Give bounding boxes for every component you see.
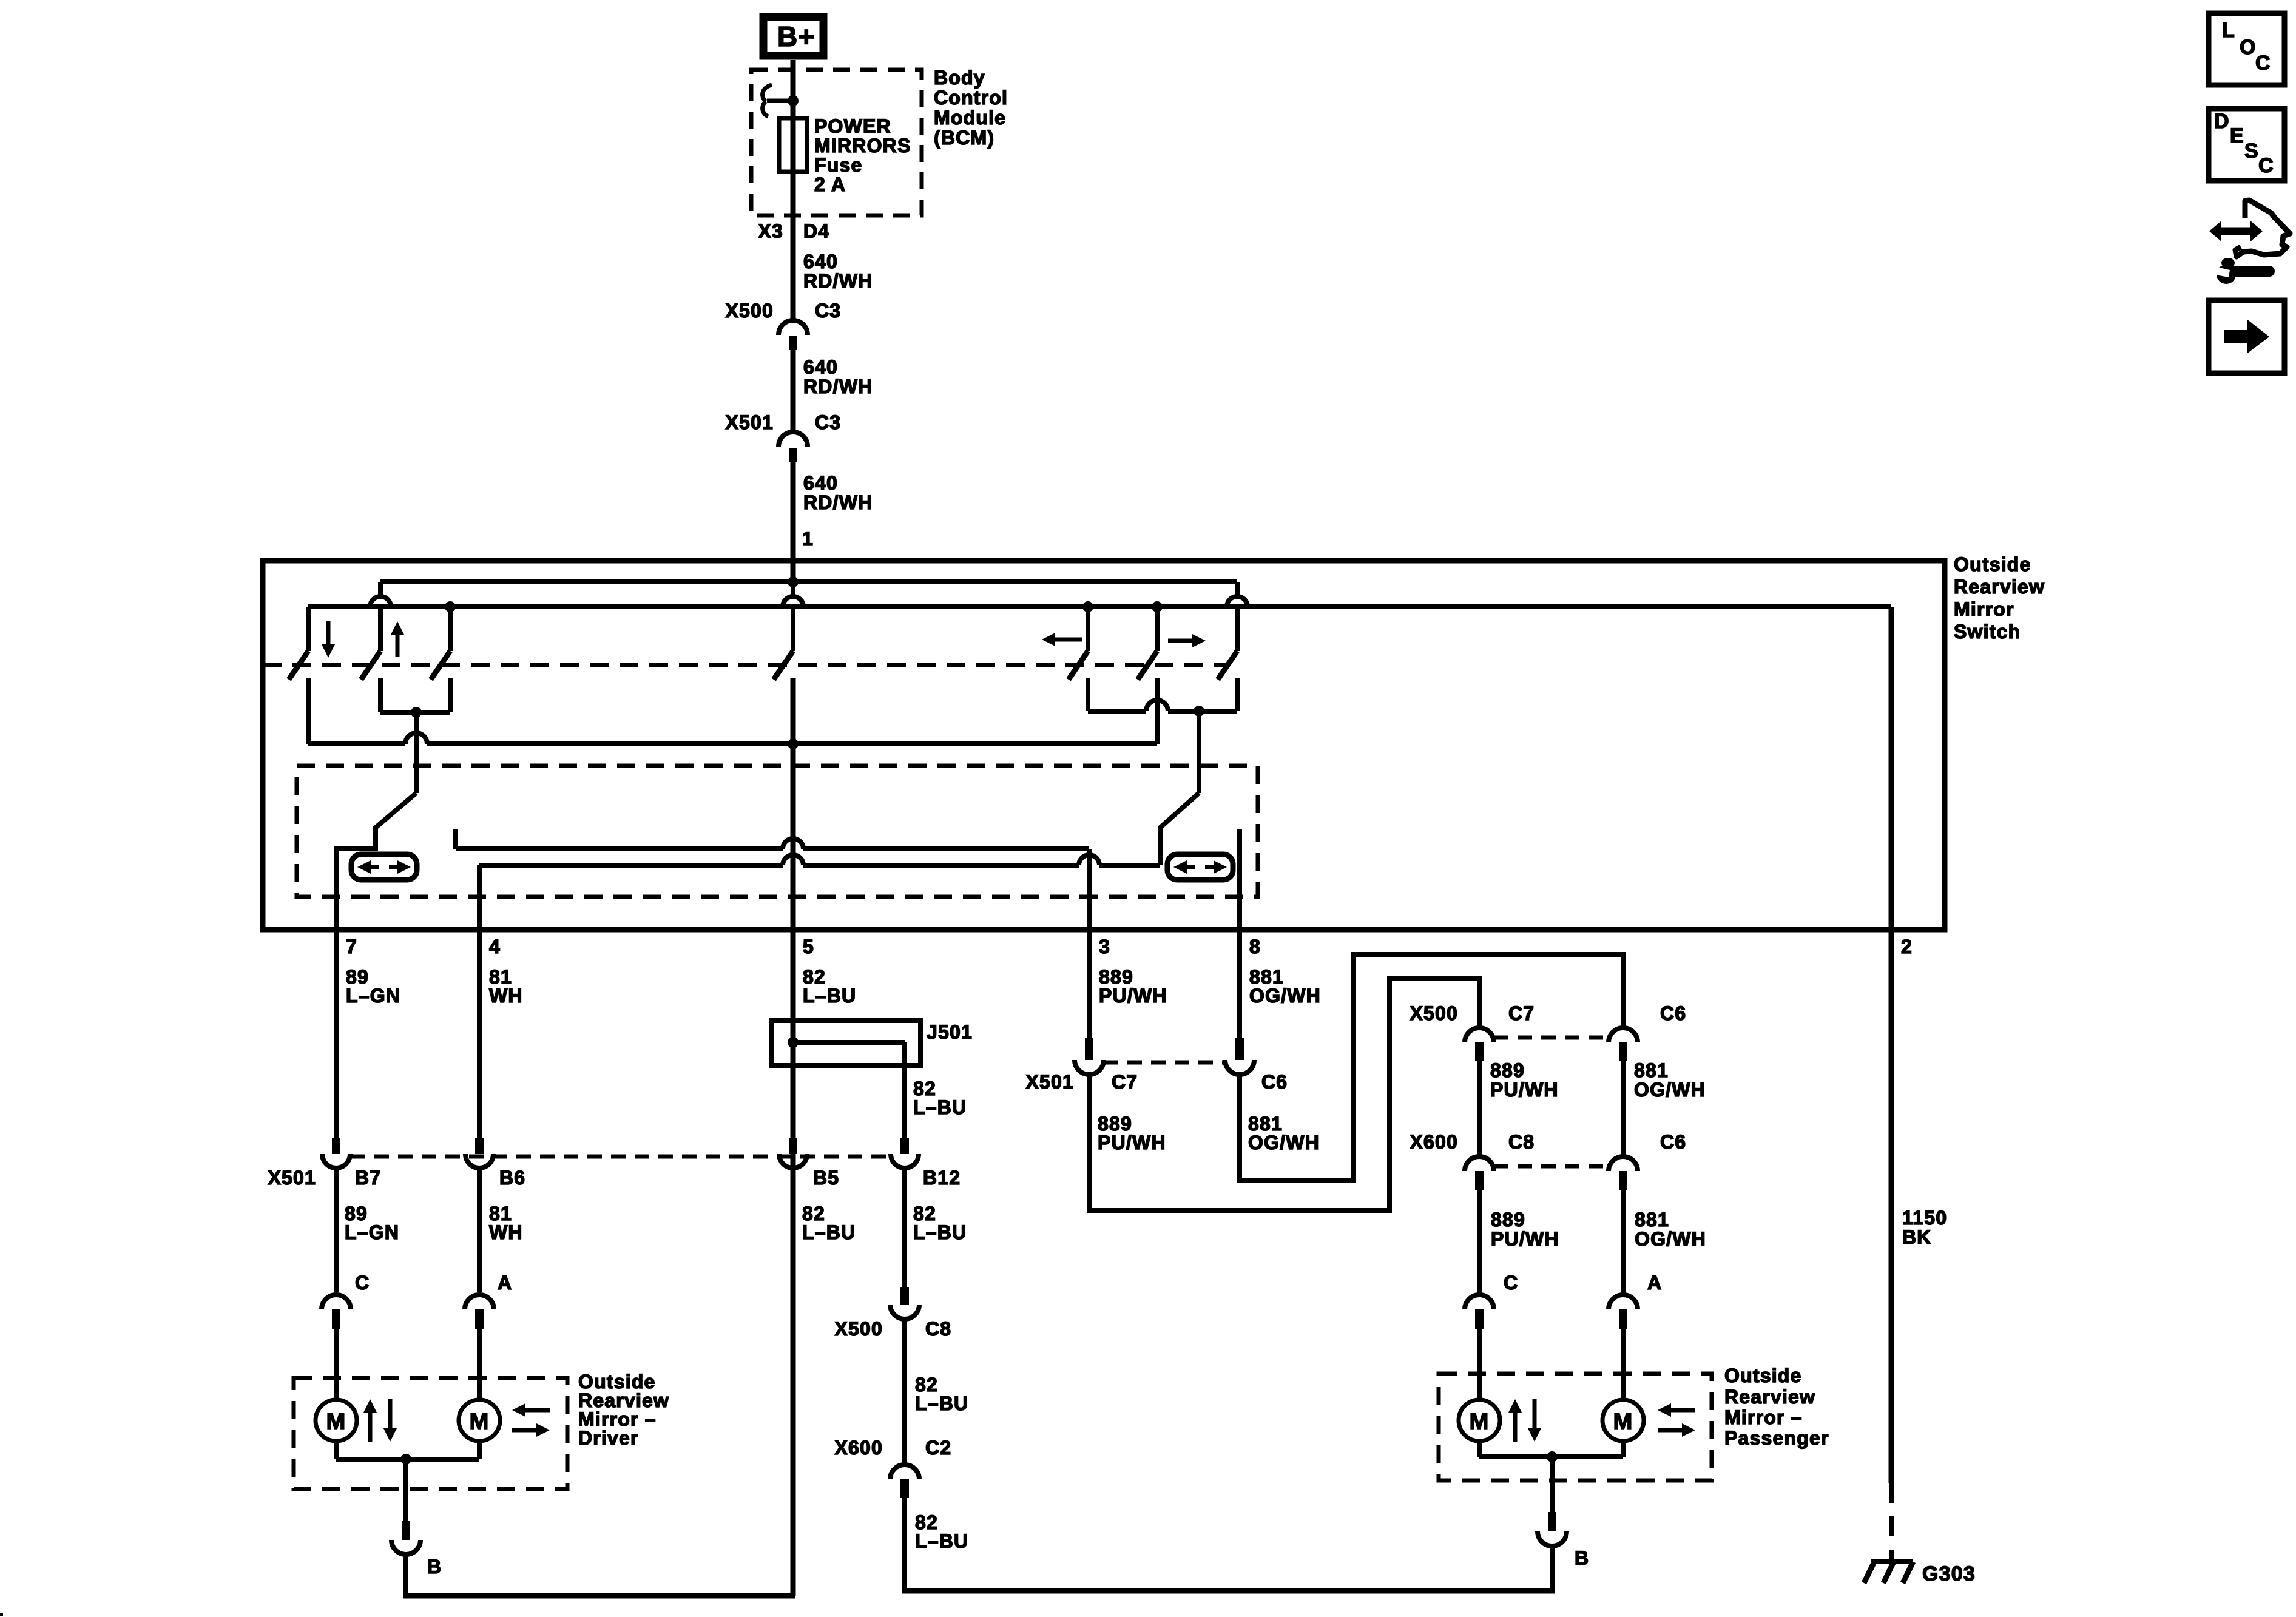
- svg-text:C: C: [355, 1272, 370, 1294]
- svg-text:C6: C6: [1261, 1071, 1288, 1093]
- svg-text:Passenger: Passenger: [1724, 1427, 1829, 1449]
- svg-text:7: 7: [346, 936, 357, 957]
- svg-text:PU/WH: PU/WH: [1099, 985, 1167, 1007]
- svg-text:X600: X600: [834, 1437, 883, 1459]
- svg-text:Body: Body: [934, 67, 985, 89]
- svg-text:C3: C3: [815, 411, 841, 433]
- svg-text:X3: X3: [758, 220, 783, 242]
- svg-text:B: B: [1575, 1547, 1589, 1569]
- svg-text:C8: C8: [925, 1318, 951, 1340]
- svg-text:M: M: [1613, 1409, 1633, 1434]
- svg-text:PU/WH: PU/WH: [1491, 1228, 1559, 1250]
- svg-text:PU/WH: PU/WH: [1098, 1132, 1166, 1153]
- svg-text:B6: B6: [499, 1167, 525, 1189]
- svg-text:C6: C6: [1660, 1002, 1686, 1024]
- svg-text:1: 1: [802, 528, 814, 550]
- svg-text:OG/WH: OG/WH: [1635, 1228, 1706, 1250]
- svg-text:Fuse: Fuse: [814, 154, 863, 176]
- svg-text:Mirror –: Mirror –: [1724, 1406, 1803, 1428]
- svg-text:B12: B12: [923, 1167, 961, 1189]
- svg-text:X600: X600: [1410, 1131, 1458, 1153]
- svg-text:C6: C6: [1660, 1131, 1686, 1153]
- svg-text:RD/WH: RD/WH: [803, 491, 873, 513]
- svg-text:X501: X501: [268, 1167, 316, 1189]
- svg-text:J501: J501: [927, 1021, 973, 1043]
- svg-text:L–BU: L–BU: [802, 1221, 856, 1243]
- svg-text:640: 640: [803, 472, 838, 494]
- svg-text:8: 8: [1249, 936, 1261, 957]
- svg-text:3: 3: [1099, 936, 1110, 957]
- svg-text:L–GN: L–GN: [346, 985, 400, 1007]
- svg-text:L–GN: L–GN: [345, 1221, 399, 1243]
- svg-text:D4: D4: [803, 220, 829, 242]
- svg-text:A: A: [498, 1272, 512, 1294]
- svg-text:B: B: [427, 1556, 442, 1578]
- svg-text:L–BU: L–BU: [913, 1096, 967, 1118]
- svg-text:M: M: [1470, 1409, 1490, 1434]
- svg-text:C: C: [2258, 154, 2274, 177]
- svg-text:M: M: [326, 1409, 346, 1434]
- svg-text:1150: 1150: [1902, 1207, 1947, 1229]
- svg-text:OG/WH: OG/WH: [1249, 985, 1321, 1007]
- svg-text:X500: X500: [1410, 1002, 1458, 1024]
- svg-text:C: C: [1504, 1272, 1518, 1294]
- svg-text:D: D: [2214, 110, 2230, 133]
- svg-text:881: 881: [1635, 1209, 1669, 1230]
- svg-text:WH: WH: [489, 985, 523, 1007]
- svg-text:M: M: [470, 1409, 490, 1434]
- svg-text:Driver: Driver: [578, 1427, 639, 1449]
- svg-text:Switch: Switch: [1954, 621, 2021, 643]
- svg-text:L–BU: L–BU: [913, 1221, 967, 1243]
- svg-text:X500: X500: [834, 1318, 883, 1340]
- svg-text:E: E: [2230, 124, 2244, 147]
- svg-text:X501: X501: [1025, 1071, 1074, 1093]
- svg-text:Outside: Outside: [1724, 1365, 1802, 1386]
- svg-text:X501: X501: [725, 411, 774, 433]
- svg-text:L–BU: L–BU: [915, 1530, 968, 1552]
- svg-text:O: O: [2240, 36, 2257, 59]
- svg-text:A: A: [1647, 1272, 1662, 1294]
- svg-text:OG/WH: OG/WH: [1634, 1079, 1706, 1101]
- svg-text:L: L: [2222, 19, 2235, 42]
- svg-text:C3: C3: [815, 300, 841, 322]
- svg-text:PU/WH: PU/WH: [1490, 1079, 1559, 1101]
- svg-text:C2: C2: [925, 1437, 951, 1459]
- svg-text:2 A: 2 A: [814, 174, 846, 195]
- svg-text:640: 640: [803, 251, 838, 272]
- svg-text:(BCM): (BCM): [934, 127, 994, 149]
- svg-text:B7: B7: [355, 1167, 381, 1189]
- svg-text:Outside: Outside: [1954, 553, 2031, 575]
- svg-text:WH: WH: [489, 1221, 523, 1243]
- svg-text:889: 889: [1491, 1209, 1525, 1230]
- svg-text:POWER: POWER: [814, 115, 891, 137]
- svg-text:C7: C7: [1112, 1071, 1138, 1093]
- svg-text:640: 640: [803, 356, 838, 378]
- svg-text:4: 4: [489, 936, 501, 957]
- svg-text:B+: B+: [777, 21, 815, 52]
- svg-text:RD/WH: RD/WH: [803, 376, 873, 397]
- svg-text:RD/WH: RD/WH: [803, 270, 873, 292]
- svg-text:Rearview: Rearview: [1724, 1386, 1815, 1408]
- svg-text:2: 2: [1901, 936, 1913, 957]
- svg-text:B5: B5: [813, 1167, 839, 1189]
- svg-text:MIRRORS: MIRRORS: [814, 135, 911, 157]
- svg-text:G303: G303: [1922, 1562, 1976, 1585]
- svg-text:L–BU: L–BU: [803, 985, 856, 1007]
- svg-text:S: S: [2244, 140, 2259, 163]
- svg-text:BK: BK: [1902, 1226, 1932, 1248]
- svg-text:C8: C8: [1508, 1131, 1535, 1153]
- svg-text:Rearview: Rearview: [1954, 576, 2045, 598]
- svg-text:5: 5: [803, 936, 814, 957]
- svg-text:881: 881: [1634, 1059, 1669, 1081]
- svg-text:889: 889: [1490, 1059, 1525, 1081]
- svg-text:X500: X500: [725, 300, 774, 322]
- svg-text:Module: Module: [934, 107, 1006, 129]
- svg-text:C: C: [2255, 52, 2271, 75]
- svg-text:OG/WH: OG/WH: [1248, 1132, 1320, 1153]
- svg-text:Mirror: Mirror: [1954, 598, 2014, 620]
- svg-text:L–BU: L–BU: [915, 1393, 968, 1414]
- svg-text:C7: C7: [1508, 1002, 1535, 1024]
- svg-text:Control: Control: [934, 87, 1008, 109]
